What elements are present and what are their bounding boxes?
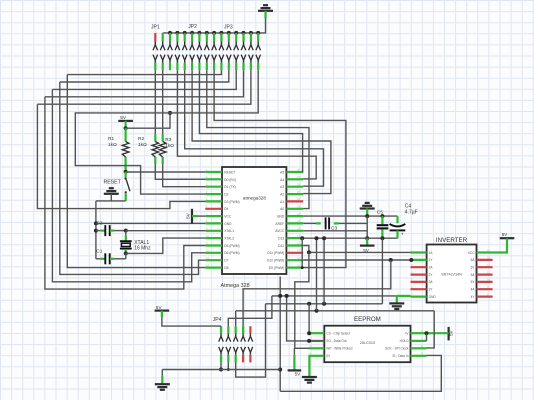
5V supply eeprom right — [448, 327, 450, 341]
wire header pin10 left — [67, 70, 221, 74]
inverter pin 1Y — [411, 259, 427, 261]
svg-text:D2: D2 — [224, 193, 228, 197]
wire JP4 pin3 top — [235, 311, 237, 326]
atmega right pin A5 — [286, 171, 303, 173]
header JP bottom pin 11 — [227, 55, 229, 61]
svg-text:D8: D8 — [224, 266, 228, 270]
5V supply below D13 line — [366, 238, 368, 245]
atmega right pin A1 — [286, 200, 303, 202]
junction C2 XTAL1 — [124, 229, 128, 233]
wire pin12 to D6 — [52, 89, 205, 281]
op-amp U1 atmega328 box — [222, 167, 286, 274]
crystal XTAL1 — [125, 231, 127, 236]
svg-text:R1: R1 — [108, 136, 114, 142]
atmega right pin D12 — [286, 244, 303, 246]
atmega left pin VCC — [205, 215, 222, 217]
header JP4 bottom pin 5 — [248, 347, 250, 353]
header JP bottom pin 3 — [168, 55, 170, 61]
wire AVCC line — [303, 230, 367, 232]
header JP4 top pin 4 — [242, 326, 244, 333]
wire SCK riser — [427, 311, 435, 348]
wire D12 to 1A — [303, 246, 410, 253]
svg-text:15: 15 — [297, 263, 301, 267]
junction JP bus pin 13 — [242, 31, 246, 35]
inverter pin VCC — [477, 251, 493, 253]
header JP top pin 9 — [213, 33, 215, 42]
header JP bottom pin 14 — [249, 55, 251, 61]
svg-text:D7: D7 — [224, 259, 228, 263]
header JP4 top pin 5 — [249, 326, 251, 333]
wire WP line — [294, 347, 308, 349]
junction 5V R1 — [124, 126, 128, 130]
inverter U2 box — [427, 245, 477, 303]
svg-text:C5: C5 — [377, 210, 383, 216]
svg-text:A2: A2 — [280, 193, 284, 197]
junction JP bus pin 5 — [183, 31, 187, 35]
inverter pin 5Y — [477, 281, 493, 283]
atmega right pin A4 — [286, 178, 303, 180]
wire JP4 pin2 bottom — [227, 362, 229, 369]
header JP top pin 8 — [206, 33, 208, 42]
resistor R2 — [154, 70, 156, 134]
junction CS riser 303 — [307, 302, 311, 306]
junction JP bus pin 7 — [197, 31, 201, 35]
svg-text:GND: GND — [429, 295, 437, 299]
junction JP bus pin 6 — [190, 31, 194, 35]
svg-text:INVERTER: INVERTER — [436, 237, 468, 244]
wire SI bottom loop — [280, 355, 441, 391]
wire GND pin line — [96, 222, 205, 224]
junction +V — [425, 331, 429, 335]
svg-text:AVCC: AVCC — [275, 229, 285, 233]
svg-text:GND: GND — [224, 222, 232, 226]
wire header pin11 left — [60, 70, 229, 82]
svg-text:21: 21 — [297, 219, 301, 223]
svg-text:24: 24 — [297, 197, 301, 201]
wire R3 to D1 — [163, 164, 206, 186]
header JP top pin 1 — [154, 33, 156, 42]
header JP top pin 2 — [162, 33, 164, 42]
atmega left pin D2 — [205, 193, 222, 195]
atmega right pin D9 (PWM) — [286, 267, 303, 269]
eeprom pin WP - Write Protect — [309, 347, 325, 349]
inverter pin 3A — [411, 281, 427, 283]
header JP4 bottom pin 2 — [226, 347, 228, 353]
header JP bottom pin 6 — [190, 55, 192, 61]
svg-text:CS - Chip Select: CS - Chip Select — [326, 332, 350, 336]
svg-text:D1 (TX): D1 (TX) — [224, 185, 236, 189]
header JP4 top pin 1 — [220, 326, 222, 333]
header JP top pin 11 — [228, 33, 230, 42]
junction R1 reset line — [124, 170, 128, 174]
svg-text:SI - Data In: SI - Data In — [392, 354, 408, 358]
wire RESET line — [126, 171, 206, 173]
svg-text:A3: A3 — [280, 185, 284, 189]
junction D12 col 1A — [307, 250, 311, 254]
svg-text:+: + — [401, 232, 404, 237]
svg-text:1kΩ: 1kΩ — [108, 142, 117, 148]
header JP4 top pin 3 — [235, 326, 237, 333]
5V supply VCC — [191, 209, 193, 224]
wire D13 to D9 stub — [301, 238, 303, 267]
junction JP bus pin 9 — [212, 31, 216, 35]
header JP bottom pin 4 — [175, 55, 177, 61]
svg-text:SO - Data Out: SO - Data Out — [326, 339, 346, 343]
wire inverter GND — [397, 295, 411, 297]
ground eeprom — [308, 356, 310, 377]
svg-text:11: 11 — [487, 270, 490, 274]
svg-text:25: 25 — [297, 190, 301, 194]
header JP bottom pin 15 — [256, 55, 258, 61]
5V supply inverter — [500, 237, 515, 239]
eeprom pin CS - Chip Select — [309, 332, 325, 334]
inverter pin 2Y — [411, 274, 427, 276]
junction D9 stub — [301, 266, 304, 269]
atmega left pin D6 (PWM) — [205, 252, 222, 254]
svg-text:1kΩ: 1kΩ — [138, 142, 147, 148]
wire SO left riser — [287, 296, 325, 341]
svg-text:22: 22 — [297, 212, 301, 216]
junction JP bus pin 8 — [205, 31, 209, 35]
svg-text:JP3: JP3 — [224, 25, 233, 31]
atmega right pin A0 — [286, 208, 303, 210]
junction JP bus pin 12 — [234, 31, 238, 35]
eeprom U3 box — [324, 326, 410, 363]
wire 303 line — [266, 303, 383, 305]
atmega right pin D13 — [286, 237, 303, 239]
wire XTAL1 pin line — [126, 230, 206, 232]
svg-text:A1: A1 — [280, 200, 284, 204]
wire header pin13 left — [45, 70, 244, 97]
header JP4 bottom pin 3 — [233, 347, 235, 353]
junction 1Y — [409, 258, 413, 262]
header JP bottom pin 9 — [212, 55, 214, 61]
svg-text:17: 17 — [297, 249, 301, 253]
svg-text:AREF: AREF — [275, 222, 284, 226]
atmega right pin D11 (PWM) — [286, 252, 303, 254]
wire pin15 5V net to D2 — [75, 70, 258, 194]
junction C5 bottom — [380, 236, 384, 240]
junction 280 gnd line — [278, 294, 282, 298]
atmega left pin RESET — [205, 171, 222, 173]
svg-text:27: 27 — [297, 175, 301, 179]
wire header pin9 to D9 — [214, 70, 346, 267]
junction JP bus pin 4 — [175, 31, 179, 35]
junction D13 316 — [315, 236, 319, 240]
ground inverter — [396, 296, 398, 303]
wire gnd column — [366, 216, 368, 238]
wire D13 line — [303, 237, 397, 239]
junction gnd rail C2 — [94, 229, 98, 233]
svg-text:26: 26 — [297, 183, 301, 187]
svg-text:JP4: JP4 — [213, 317, 222, 323]
svg-text:25LC010: 25LC010 — [360, 341, 375, 345]
wire pin11 to D7 — [60, 82, 206, 274]
svg-text:C2: C2 — [96, 220, 102, 226]
resistor R1 — [124, 128, 126, 141]
svg-text:SCK - SPI Clock: SCK - SPI Clock — [385, 347, 409, 351]
junction pin15 line — [168, 111, 172, 115]
wire JP4 pin1 bottom — [220, 362, 222, 369]
5V supply JP4 — [155, 310, 170, 312]
atmega left pin D1 (TX) — [205, 186, 222, 188]
inverter pin 2A — [411, 266, 427, 268]
switch RESET — [124, 172, 126, 178]
wire 324 col — [323, 238, 325, 303]
junction SO — [307, 339, 311, 343]
wire D10 to 1Y — [303, 259, 410, 261]
svg-text:D6 (PWM): D6 (PWM) — [224, 251, 239, 255]
svg-text:D12: D12 — [278, 244, 284, 248]
header JP bottom pin 12 — [234, 55, 236, 61]
svg-text:D5 (PWM): D5 (PWM) — [224, 244, 239, 248]
svg-text:16: 16 — [297, 256, 301, 260]
atmega right pin AREF — [286, 222, 303, 224]
svg-text:18: 18 — [297, 241, 301, 245]
atmega left pin D4 — [205, 208, 222, 210]
atmega left pin D3 (PWM) — [205, 200, 222, 202]
junction gnd column D13 — [365, 236, 369, 240]
atmega right pin GND — [286, 215, 303, 217]
wire big vertical 280 — [279, 277, 281, 392]
header JP top pin 4 — [176, 33, 178, 42]
svg-text:1kΩ: 1kΩ — [165, 143, 174, 149]
ground bottom left — [161, 370, 163, 376]
svg-text:4.7µF: 4.7µF — [405, 210, 418, 216]
wire crystal to XTAL2 pin — [126, 238, 206, 253]
atmega left pin D7 — [205, 259, 222, 261]
eeprom pin +V — [411, 332, 427, 334]
inverter pin 6Y — [477, 266, 493, 268]
svg-text:HOLD: HOLD — [400, 339, 410, 343]
svg-text:13: 13 — [206, 256, 210, 260]
wire 369 line — [162, 369, 280, 371]
wire header pin12 left — [52, 70, 236, 89]
svg-text:13: 13 — [487, 256, 491, 260]
junction C5 top — [380, 214, 384, 218]
svg-text:XTAL1: XTAL1 — [224, 229, 234, 233]
junction D13 left — [300, 236, 304, 240]
5V supply eeprom left — [293, 348, 295, 355]
svg-text:5V: 5V — [295, 372, 302, 377]
wire GND pin to rail — [303, 215, 397, 217]
atmega right pin A3 — [286, 186, 303, 188]
5V supply left — [118, 120, 133, 122]
ground right of IC — [365, 202, 370, 204]
svg-text:5V: 5V — [120, 115, 127, 120]
svg-text:19: 19 — [297, 234, 301, 238]
svg-text:R3: R3 — [165, 137, 171, 143]
atmega left pin D0 (RX) — [205, 178, 222, 180]
svg-text:28: 28 — [297, 168, 301, 172]
svg-text:D3 (PWM): D3 (PWM) — [224, 200, 239, 204]
atmega left pin D8 — [205, 267, 222, 269]
svg-text:VCC: VCC — [468, 251, 475, 255]
svg-text:JP1: JP1 — [151, 25, 160, 31]
svg-text:WP - Write Protect: WP - Write Protect — [326, 347, 352, 351]
wire R2 to D0 — [155, 164, 205, 179]
svg-text:R2: R2 — [138, 136, 144, 142]
header JP bottom pin 1 — [153, 55, 155, 61]
svg-text:RESET: RESET — [104, 179, 122, 185]
svg-text:14: 14 — [487, 248, 491, 252]
atmega right pin AVCC — [286, 230, 303, 232]
wire D12col jog to WP — [295, 252, 309, 348]
svg-text:D0 (RX): D0 (RX) — [224, 178, 236, 182]
ground top right — [263, 4, 268, 6]
header JP bottom pin 7 — [197, 55, 199, 61]
svg-text:5V: 5V — [156, 305, 163, 310]
svg-text:A0: A0 — [280, 207, 284, 211]
junction JP4 riser D10 — [389, 258, 393, 262]
header JP top pin 10 — [220, 33, 222, 42]
wire header pin4 to A4 — [177, 70, 316, 179]
junction SCK D13 col — [315, 309, 319, 313]
wire JP4 pin4 top — [243, 260, 391, 326]
eeprom pin 0V — [309, 355, 325, 357]
svg-text:C1: C1 — [96, 249, 102, 255]
svg-text:D11 (PWM): D11 (PWM) — [267, 251, 284, 255]
capacitor C4 electrolytic — [396, 216, 398, 223]
svg-text:10: 10 — [487, 278, 491, 282]
junction 280 369 — [278, 368, 282, 372]
svg-text:5V: 5V — [186, 212, 191, 219]
junction gnd rail GND line — [94, 221, 98, 225]
header JP top pin 13 — [242, 33, 244, 42]
wire JP4 pin3 bottom — [236, 304, 266, 377]
wire D13 col to SCK line — [316, 238, 318, 310]
atmega left pin GND — [205, 222, 222, 224]
junction JP bus pin 3 — [168, 31, 172, 35]
svg-text:5V: 5V — [449, 329, 454, 336]
wire +V to HOLD — [426, 333, 428, 341]
header JP bottom pin 10 — [219, 55, 221, 61]
svg-text:11: 11 — [206, 241, 209, 245]
wire header pin6 to A2 — [192, 70, 331, 193]
svg-text:XTAL2: XTAL2 — [224, 237, 234, 241]
svg-text:SN74LV14N: SN74LV14N — [441, 272, 462, 276]
svg-text:JP2: JP2 — [188, 24, 197, 30]
junction jp4 p2 bottom — [227, 368, 230, 371]
junction gnd rail — [365, 214, 369, 218]
eeprom pin SO - Data Out — [309, 340, 325, 342]
junction JP bus pin 14 — [249, 31, 253, 35]
junction JP bus pin 11 — [227, 31, 231, 35]
svg-text:D4: D4 — [224, 207, 228, 211]
junction jp4 p1 bottom — [219, 368, 223, 372]
wire pin10 to D8 — [67, 75, 205, 268]
svg-text:GND: GND — [277, 215, 285, 219]
inverter pin 5A — [477, 274, 493, 276]
wire pin14 to D3 — [37, 104, 205, 208]
junction CS — [307, 331, 311, 335]
wire header pin8 to A0 — [207, 70, 309, 208]
junction crystal C1 — [124, 251, 128, 255]
inverter pin 1A — [411, 251, 427, 253]
ground RESET — [109, 187, 114, 189]
atmega right pin D10 (PWM) — [286, 259, 303, 261]
wire CS riser — [308, 304, 310, 333]
inverter pin 4A — [477, 288, 493, 290]
header JP top pin 3 — [169, 33, 171, 42]
svg-text:VCC: VCC — [224, 215, 232, 219]
eeprom pin SCK - SPI Clock — [411, 347, 427, 349]
header JP4 bottom pin 1 — [219, 347, 221, 353]
capacitor C3 — [303, 222, 316, 224]
resistor R3 — [162, 70, 164, 134]
atmega left pin D5 (PWM) — [205, 244, 222, 246]
wire SCK jp line — [236, 310, 434, 312]
wire header pin14 left — [37, 70, 251, 104]
wire JP4 pin2 top — [228, 296, 272, 326]
atmega right pin A2 — [286, 193, 303, 195]
header JP top pin 12 — [235, 33, 237, 42]
header JP top pin 5 — [184, 33, 186, 42]
junction 324 col 303 — [322, 302, 326, 306]
svg-text:12: 12 — [487, 263, 491, 267]
header JP top pin 7 — [198, 33, 200, 42]
inverter pin GND — [411, 296, 427, 298]
wire pin13 to D5 — [45, 97, 205, 289]
svg-text:16 Mhz: 16 Mhz — [134, 246, 151, 252]
svg-text:10: 10 — [206, 234, 210, 238]
inverter pin 4Y — [477, 296, 493, 298]
header JP bottom pin 2 — [160, 55, 162, 61]
wire 5V to header pin3 column — [126, 113, 170, 128]
svg-text:D13: D13 — [278, 237, 284, 241]
inverter pin 3Y — [411, 288, 427, 290]
svg-text:20: 20 — [297, 227, 301, 231]
svg-text:A4: A4 — [280, 178, 284, 182]
svg-text:D10 (PWM): D10 (PWM) — [267, 259, 284, 263]
svg-text:5V: 5V — [502, 232, 509, 237]
junction SO riser gnd line — [285, 294, 289, 298]
wire gnd rail down caps — [95, 201, 97, 259]
atmega left pin XTAL2 — [205, 237, 222, 239]
header JP top pin 15 — [257, 33, 259, 42]
svg-text:23: 23 — [297, 205, 301, 209]
wire JP bus to ground — [163, 19, 266, 33]
svg-text:atmega328: atmega328 — [243, 195, 266, 200]
wire switch to gnd rail — [96, 200, 126, 202]
junction D13 324 — [322, 236, 326, 240]
atmega left pin XTAL1 — [205, 230, 222, 232]
header JP4 top pin 2 — [227, 326, 229, 333]
header JP bottom pin 5 — [182, 55, 184, 61]
header JP bottom pin 8 — [204, 55, 206, 61]
svg-text:12: 12 — [206, 249, 210, 253]
eeprom pin HOLD — [411, 340, 427, 342]
svg-text:A5: A5 — [280, 170, 284, 174]
svg-text:EEPROM: EEPROM — [354, 316, 381, 323]
svg-text:D9 (PWM): D9 (PWM) — [269, 266, 284, 270]
svg-text:14: 14 — [206, 263, 210, 267]
wire C5 col down — [381, 238, 383, 303]
wire header pin7 to A5 — [199, 70, 303, 172]
wire 0V corner — [307, 355, 310, 357]
inverter pin 6A — [477, 259, 493, 261]
header JP4 bottom pin 4 — [241, 347, 243, 353]
junction JP bus pin 15 — [256, 31, 260, 35]
header JP top pin 6 — [191, 33, 193, 42]
header JP bottom pin 13 — [241, 55, 243, 61]
wire header pin5 to A3 — [185, 70, 324, 186]
eeprom pin SI - Data In — [411, 355, 427, 357]
junction JP bus pin 10 — [219, 31, 223, 35]
svg-text:RESET: RESET — [224, 170, 235, 174]
header JP top pin 14 — [250, 33, 252, 42]
